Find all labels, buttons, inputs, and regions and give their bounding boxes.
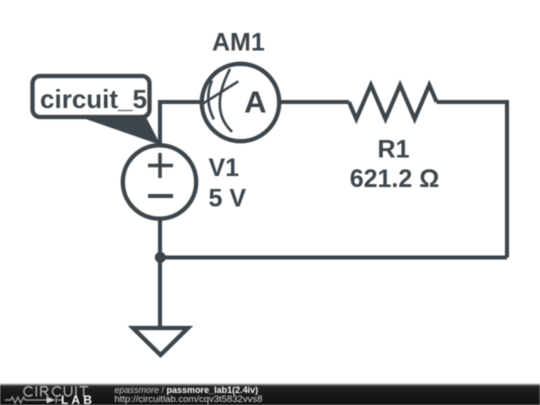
wire ammeter right to resistor [279,100,349,104]
svg-text:5 V: 5 V [209,185,247,213]
voltage source V1 [123,145,196,218]
resistor R1 [349,85,437,119]
svg-text:A: A [244,85,266,120]
logo wire to LAB [57,399,62,401]
svg-text:LAB: LAB [61,393,95,405]
logo letter C [52,387,60,396]
svg-text:621.2 Ω: 621.2 Ω [350,165,440,193]
logo resistor squiggle [5,397,47,403]
svg-text:R1: R1 [378,136,410,164]
logo letter T [80,387,88,396]
wire V1 bottom to node [158,218,162,258]
node junction dot [155,252,166,263]
bottom wire [160,255,507,259]
footer bar [0,383,540,405]
footer text line 1 [115,385,259,395]
ammeter AM1 [202,64,279,141]
logo letter R [41,387,48,396]
logo diode bar [55,397,57,404]
svg-text:circuit_5: circuit_5 [40,84,147,114]
svg-text:V1: V1 [209,154,240,182]
logo letter U [64,387,71,396]
wire resistor to top-right corner and down [437,102,507,258]
CircuitLab logo [0,383,110,405]
logo letter I [35,387,37,396]
footer text line 2 [115,394,263,405]
logo letter I [75,387,77,396]
callout bubble circuit_5 [33,76,161,145]
logo diode triangle [47,397,56,404]
ground [133,328,188,355]
wire node to ground [158,258,162,329]
logo letter C [24,387,32,396]
wire from V1 top to ammeter left [160,102,202,146]
svg-text:AM1: AM1 [212,28,265,56]
